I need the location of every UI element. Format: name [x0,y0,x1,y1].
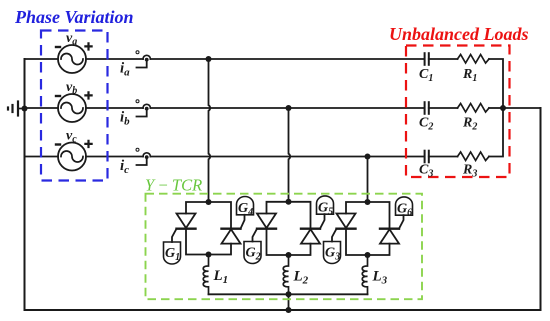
TCR group 2 rails [267,202,311,229]
wire phase b: source to probe [86,107,143,109]
gate lead G3 [332,229,337,242]
wire drop phase b to TCR group2 (hops over phase c) [289,108,291,202]
red dashed box Unbalanced Loads [406,46,510,178]
gate lead G6 [399,215,404,229]
wire bottom rail [25,309,541,311]
capacitor C1 [425,53,429,65]
label minus vc [55,143,61,145]
node group3 bottom [365,252,371,258]
wire drop phase a to TCR group1 (hops over phase b and c) [209,59,211,202]
ground [8,102,25,116]
node group1 top [206,199,212,205]
label minus va [55,46,61,48]
wire right bus [540,108,542,310]
wire phase a: probe to capacitor C1 [150,58,424,60]
gate capsule G4 [237,197,254,215]
wire inductor common [209,293,368,295]
svg-text:Y − TCR: Y − TCR [145,176,202,195]
svg-text:Unbalanced Loads: Unbalanced Loads [389,24,529,44]
wire phase c: probe to capacitor C3 [150,156,424,158]
gate lead G5 [320,214,325,229]
thyristor Q4 (right, up) [222,229,241,244]
wire R3 up to node column [489,108,503,157]
svg-text:Phase Variation: Phase Variation [14,7,134,27]
wire R1 to right node column [489,59,503,108]
node group3 top [365,199,371,205]
node ground junction [22,106,28,112]
wire drop phase c to TCR group3 [367,157,369,203]
TCR group 3 rails [346,202,390,229]
wire C2 to R2 [429,107,458,109]
inductor L1 [203,255,208,295]
wire phase b left lead [25,107,59,109]
wire C3 to R3 [429,156,458,158]
wire phase a: source to probe [86,58,143,60]
wire neutral to bottom rail [288,294,290,310]
AC source Va [58,45,86,73]
thyristor Q5 (right, up) [301,229,320,244]
current probe ia [136,51,150,68]
current probe ib [136,100,150,117]
wire R2 to node [489,107,503,109]
thyristor Q6 (right, up) [380,229,399,244]
gate lead G2 [253,229,258,242]
node group2 bottom [286,252,292,258]
node bottom rail junction [286,307,292,313]
thyristor Q2 (left, down) [257,214,276,229]
node neutral junction [286,291,292,297]
label plus vc [84,140,92,148]
inductor L2 [283,255,288,294]
blue dashed box Phase Variation [41,31,108,181]
thyristor Q3 (left, down) [337,214,356,229]
gate capsule G2 [244,242,261,264]
node group1 bottom [206,252,212,258]
green dashed box Y-TCR [146,194,423,300]
wire phase c: source to probe [86,156,143,158]
thyristor Q1 (left, down) [177,214,196,229]
gate lead G4 [241,215,245,229]
resistor R3 [458,152,490,161]
inductor L3 [362,255,367,294]
AC source Vb [58,94,86,122]
wire phase c left lead [25,156,59,158]
AC source Vc [58,143,86,171]
label plus vb [84,91,92,99]
gate capsule G1 [164,242,181,264]
label plus va [84,42,92,50]
resistor R2 [458,104,490,113]
node phase b / drop b [286,105,292,111]
wire C1 to R1 [429,58,458,60]
gate lead G1 [172,229,177,242]
gate capsule G6 [396,197,413,215]
node group2 top [286,199,292,205]
gate capsule G5 [317,196,334,214]
wire phase b: probe to capacitor C2 [150,107,424,109]
wire phase a left lead [25,58,59,60]
gate capsule G3 [324,242,341,264]
wire loads node to right bus [503,107,541,109]
resistor R1 [458,55,490,64]
node loads common [500,105,506,111]
label minus vb [55,95,61,97]
wire left bus [24,59,26,310]
capacitor C3 [425,151,429,163]
node phase a / drop a [206,56,212,62]
TCR group 1 rails [186,202,231,229]
capacitor C2 [425,102,429,114]
node phase c / drop c [365,154,371,160]
current probe ic [136,148,150,165]
